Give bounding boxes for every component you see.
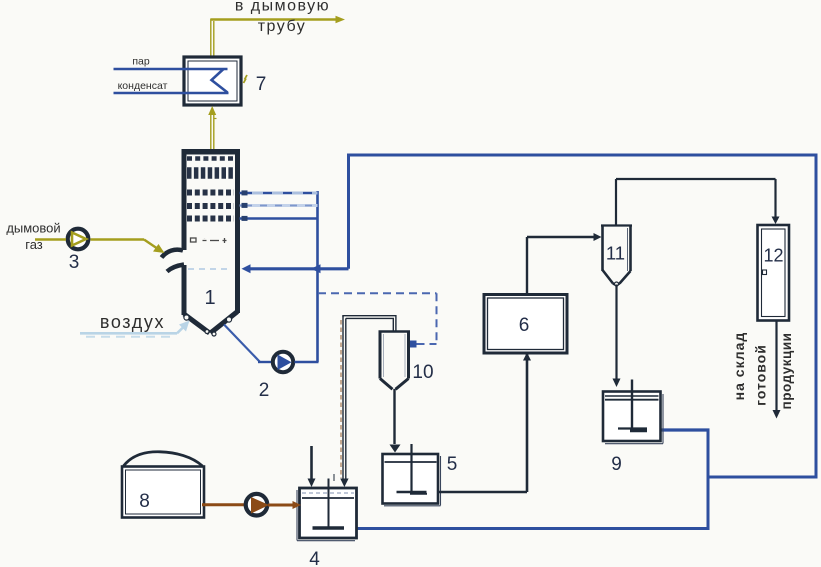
column packing row 5: [187, 216, 234, 222]
svg-text:1: 1: [204, 287, 215, 309]
vessel 11 (cyclone): [601, 226, 632, 285]
pump P8 (brown): [246, 494, 269, 516]
heat exchanger coil zigzag: [212, 69, 228, 93]
faint liquid line inside column: [188, 268, 229, 270]
vessel 12: [758, 225, 790, 321]
tank 4: [300, 474, 357, 538]
wire hopper feed line (double duct): [343, 316, 396, 331]
label в дымовую трубу: [235, 0, 330, 35]
wire pump P2 discharge: [295, 361, 319, 363]
arrow square into hopper 10: [410, 341, 417, 348]
wire tank9 outlet: [659, 428, 710, 431]
tick pointer at U7: [244, 75, 248, 83]
column packing row 3: [187, 190, 234, 196]
column packing row 4: [187, 203, 234, 209]
label дымовой газ: [6, 221, 60, 253]
wire right edge loop down: [815, 155, 818, 479]
wire column-to-exchanger (olive, arrow up): [208, 106, 216, 149]
svg-text:готовой: готовой: [753, 344, 769, 406]
wire flue-gas-to-stack (olive): [211, 16, 345, 56]
column 1 shell: [182, 149, 241, 333]
wire vessel11 top to vessel 12: [616, 179, 780, 226]
tank 5 outer shadow lines: [384, 456, 441, 506]
svg-text:продукции: продукции: [779, 333, 794, 410]
tank 8: [122, 452, 204, 518]
svg-text:дымовой: дымовой: [6, 221, 60, 236]
wire riser to top loop: [347, 155, 350, 269]
hopper 10 inner wall lines: [384, 334, 406, 377]
wire spray line C: [240, 216, 318, 221]
wire dashed branch to hopper 10: [318, 293, 437, 344]
wire tank8 to pump (brown): [202, 503, 245, 506]
svg-text:10: 10: [412, 362, 433, 383]
box 6: [484, 295, 567, 354]
pump P2: [273, 352, 293, 372]
wire box6 to vessel 11: [527, 233, 602, 295]
wire air line (pale blue): [80, 321, 190, 337]
wire steam line (пар): [114, 68, 228, 71]
vessel 11 inner wall line: [627, 228, 629, 271]
svg-text:6: 6: [519, 315, 530, 336]
wire tank5 to box6: [438, 353, 531, 493]
inlet duct nozzle: [162, 250, 185, 272]
column distributor marks: [191, 238, 227, 243]
svg-text:воздух: воздух: [100, 312, 165, 332]
svg-text:газ: газ: [25, 237, 43, 252]
vessel 11 tip circle: [615, 282, 619, 286]
svg-text:7: 7: [256, 74, 267, 95]
svg-text:3: 3: [69, 252, 80, 273]
svg-text:12: 12: [763, 246, 783, 266]
cone joint circles: [184, 315, 232, 336]
svg-text:11: 11: [606, 243, 625, 264]
svg-text:в дымовую: в дымовую: [235, 0, 330, 15]
wire feed arrow into tank 4: [308, 446, 316, 487]
wire product line down: [773, 321, 781, 419]
svg-text:8: 8: [139, 491, 150, 512]
column packing row 1: [187, 156, 234, 161]
label на склад готовой продукции (vertical): [731, 332, 794, 410]
wire flue gas line (olive): [35, 240, 165, 254]
svg-text:9: 9: [611, 454, 622, 475]
wire loop bottom horizontal: [708, 476, 818, 479]
svg-text:конденсат: конденсат: [118, 80, 168, 92]
wire downcomer to tank 4 (double duct with dust line): [340, 316, 348, 487]
tank 9: [603, 380, 661, 442]
tank 4 outer shadow lines: [297, 490, 355, 541]
pump P3: [68, 229, 89, 250]
svg-text:2: 2: [259, 380, 270, 401]
wire spray riser: [316, 191, 319, 362]
tank 9 outer shadow lines: [605, 394, 663, 444]
svg-text:трубу: трубу: [258, 18, 307, 35]
heat exchanger U7 box: [184, 57, 241, 105]
wire hopper outlet to tank 5: [390, 389, 401, 453]
small square mark in vessel 12: [763, 270, 767, 275]
tank 5: [383, 444, 439, 504]
wire column bottoms to pump P2: [224, 325, 272, 363]
wire recycle into column: [242, 264, 349, 273]
wire top loop horizontal: [347, 154, 818, 157]
svg-text:5: 5: [447, 454, 458, 475]
wire pump to tank 4 (brown): [268, 501, 301, 509]
wire tank4 outlet to loop: [357, 527, 710, 530]
wire vessel11 bottom to tank 9: [613, 285, 621, 388]
hopper 10: [379, 332, 411, 390]
svg-text:4: 4: [309, 549, 320, 567]
wire loop vertical joiner: [707, 430, 710, 530]
wire spray line A: [240, 190, 318, 195]
wire spray line B: [240, 203, 318, 208]
svg-text:на склад: на склад: [731, 332, 747, 401]
column packing row 2: [187, 167, 234, 179]
svg-text:пар: пар: [132, 56, 150, 68]
wire condensate line (конденсат): [114, 92, 229, 95]
